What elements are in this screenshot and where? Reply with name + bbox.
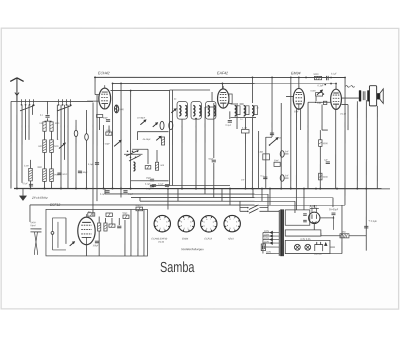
svg-text:80pF: 80pF — [83, 172, 88, 174]
svg-text:25pF: 25pF — [146, 178, 152, 180]
svg-text:ECF12: ECF12 — [50, 203, 60, 207]
svg-text:0,1µF: 0,1µF — [226, 125, 232, 127]
resistor 50pF — [123, 215, 129, 218]
wire second top rail — [113, 82, 336, 84]
wire — [130, 209, 132, 256]
oscillator section verticals — [130, 91, 132, 189]
svg-text:6,3V 0,3A: 6,3V 0,3A — [300, 238, 311, 241]
wire — [320, 233, 322, 236]
capacitor 0.1uF below bus — [123, 191, 133, 196]
primary taps — [263, 231, 279, 254]
potentiometer 0.5M — [258, 152, 269, 160]
svg-text:EM34: EM34 — [291, 71, 300, 75]
IF transformer T1 primary — [171, 101, 187, 119]
svg-text:50pF: 50pF — [122, 213, 128, 215]
wire — [267, 194, 269, 208]
resistor 300 — [106, 213, 112, 216]
wire — [332, 198, 334, 207]
wire — [92, 102, 94, 209]
speaker — [369, 86, 383, 106]
wire drop — [213, 189, 215, 198]
wire — [349, 235, 366, 237]
wire — [67, 105, 69, 189]
svg-text:2n: 2n — [257, 108, 259, 110]
trimmer AM osc — [59, 143, 66, 149]
resistor 150 — [145, 166, 151, 169]
capacitor 0.1 — [263, 177, 267, 179]
resistor 5000 top — [314, 76, 321, 79]
svg-text:0,6µF: 0,6µF — [146, 188, 152, 190]
tube socket EM34 — [178, 215, 194, 231]
svg-text:10-30pF: 10-30pF — [137, 117, 146, 119]
wire — [240, 103, 244, 105]
wire — [170, 89, 211, 91]
wire — [47, 118, 49, 121]
svg-text:0,1µF: 0,1µF — [22, 183, 28, 185]
wire — [56, 105, 58, 140]
svg-text:4-20pF: 4-20pF — [103, 144, 111, 146]
wire — [236, 103, 238, 129]
capacitor 0.5uF — [150, 185, 154, 187]
wire — [315, 96, 317, 101]
capacitor 150pF — [92, 241, 99, 247]
wire — [251, 118, 253, 189]
svg-text:0,5M: 0,5M — [258, 152, 263, 154]
wire — [330, 246, 335, 248]
wire — [330, 253, 342, 255]
trimmer 45-45pF — [156, 136, 161, 140]
wire — [51, 152, 53, 169]
resistor — [109, 224, 115, 227]
wire heater line 1 — [105, 193, 268, 195]
svg-text:50pF: 50pF — [209, 159, 215, 161]
wire — [298, 77, 300, 88]
wire — [21, 105, 23, 183]
svg-text:EL41: EL41 — [341, 113, 347, 116]
svg-text:EM34: EM34 — [182, 237, 189, 240]
hum symbol — [346, 86, 350, 88]
IF transformer T1 secondary — [191, 101, 201, 119]
svg-text:5nF: 5nF — [285, 151, 289, 153]
svg-text:5000: 5000 — [314, 74, 320, 76]
wire — [244, 133, 246, 189]
svg-text:AZ41: AZ41 — [227, 238, 234, 241]
wire — [111, 83, 113, 188]
wire — [321, 104, 323, 130]
wire — [111, 218, 113, 224]
wire — [28, 105, 30, 140]
wire — [86, 110, 88, 134]
coil small — [85, 134, 89, 141]
svg-text:4700: 4700 — [135, 205, 141, 207]
wire — [195, 119, 197, 189]
svg-text:5nF: 5nF — [285, 175, 289, 177]
capacitor 0.1uF left — [88, 163, 99, 166]
wire — [213, 163, 215, 189]
svg-text:0,1µF: 0,1µF — [318, 85, 325, 87]
wire — [47, 101, 49, 114]
trimmer 4-20pF — [114, 140, 121, 146]
wire — [376, 106, 378, 189]
wire — [167, 189, 169, 210]
IF transformer T2 primary — [235, 106, 240, 117]
resistor 4700 on box edge — [136, 207, 143, 211]
capacitor 50nF — [57, 173, 68, 176]
wire — [307, 102, 309, 188]
wire — [342, 104, 349, 106]
junction — [330, 77, 332, 79]
mains switch — [240, 201, 279, 213]
svg-text:50+50µF: 50+50µF — [329, 209, 339, 211]
wire — [118, 218, 120, 225]
svg-text:50pF: 50pF — [317, 103, 323, 105]
svg-text:80pF: 80pF — [103, 118, 109, 120]
resistor 2500 — [29, 168, 33, 181]
coil L2 — [114, 105, 118, 113]
output transformer — [359, 90, 369, 101]
tube EL41 — [331, 86, 342, 109]
fuse holder — [314, 242, 322, 256]
wire — [51, 131, 53, 140]
secondary loop heater — [285, 240, 330, 253]
wire — [30, 160, 32, 169]
svg-text:150pF: 150pF — [92, 245, 99, 247]
tube ECF12 — [78, 214, 95, 245]
wire — [341, 205, 343, 254]
svg-text:ECF12: ECF12 — [204, 238, 212, 241]
wire — [231, 117, 256, 119]
capacitor 0.1uF on bus — [29, 184, 33, 186]
wire — [258, 131, 260, 189]
ground symbol — [19, 189, 26, 201]
resistor 3000 — [43, 169, 47, 182]
wire — [65, 218, 67, 244]
wire — [94, 77, 96, 94]
wire — [204, 107, 206, 189]
svg-text:110V: 110V — [266, 252, 271, 254]
wire — [205, 106, 216, 108]
svg-text:50nF: 50nF — [62, 174, 67, 176]
capacitor 0.5uF out — [364, 219, 377, 228]
capacitor 0.1uF pair — [145, 184, 169, 187]
svg-text:0,1µF: 0,1µF — [128, 194, 134, 196]
capacitor 1uF — [326, 162, 330, 164]
trimmer fm — [70, 242, 75, 246]
svg-text:0,1M: 0,1M — [242, 128, 247, 130]
wire B+ top bus — [95, 76, 345, 78]
svg-text:0,5µF: 0,5µF — [371, 220, 378, 223]
resistor 250 — [340, 232, 349, 238]
trimmer 10-30pF — [140, 120, 146, 125]
resistor 100 — [43, 122, 46, 131]
resistor 5000 — [319, 140, 322, 147]
capacitor cathode 1 — [303, 214, 307, 216]
wire main ground bus — [14, 188, 390, 190]
capacitor cathode 2 — [303, 220, 307, 222]
wire — [102, 125, 104, 189]
svg-text:ZF=447kHz: ZF=447kHz — [31, 196, 48, 200]
wire — [335, 109, 337, 188]
wire — [120, 83, 122, 188]
junction — [290, 77, 292, 79]
wire left drop — [10, 101, 12, 188]
potentiometer 1M volume — [269, 138, 282, 146]
resistor 3000 — [50, 122, 53, 131]
wire — [271, 77, 273, 137]
wire — [98, 216, 100, 223]
wire — [64, 105, 66, 160]
coil small — [74, 130, 78, 136]
wire — [344, 77, 346, 205]
wire — [266, 136, 272, 138]
capacitor 25pF — [150, 179, 154, 181]
svg-text:0,1µF: 0,1µF — [158, 184, 164, 186]
svg-text:125V: 125V — [264, 238, 270, 240]
wire — [29, 205, 31, 222]
svg-text:150V: 150V — [264, 234, 270, 236]
wire — [229, 111, 231, 119]
IF transformer T2 secondary — [244, 106, 249, 117]
resistor 0.1M — [241, 128, 249, 133]
wire drop — [221, 189, 223, 202]
svg-text:50pF: 50pF — [294, 111, 299, 113]
wire — [365, 100, 367, 250]
UKW dipole — [30, 222, 41, 255]
svg-text:0,1µF: 0,1µF — [100, 194, 106, 196]
capacitor 50+50uF — [329, 209, 339, 230]
wire heater line 2 — [131, 196, 333, 198]
resistor 2400 — [50, 169, 54, 182]
wire — [96, 95, 98, 201]
wire — [104, 189, 106, 194]
wire supply line 4 — [30, 204, 345, 206]
potentiometer 0.5M em — [311, 90, 325, 96]
wire — [290, 77, 292, 188]
wire osc bottom — [131, 180, 169, 182]
svg-text:0,5M: 0,5M — [311, 90, 316, 92]
svg-text:220V: 220V — [264, 231, 270, 233]
band switch S2 — [124, 149, 148, 161]
wire — [322, 129, 328, 131]
wire — [85, 245, 87, 256]
svg-text:ECH42: ECH42 — [98, 71, 110, 75]
wire — [120, 189, 122, 198]
wire — [294, 201, 296, 213]
wire — [108, 125, 110, 132]
wire drop — [252, 189, 254, 198]
svg-text:EAF42: EAF42 — [217, 71, 228, 75]
junction dots top bus — [94, 76, 346, 84]
svg-text:50nF: 50nF — [274, 160, 280, 162]
wire — [143, 209, 145, 256]
wire — [280, 103, 282, 189]
resistor 5000 lower — [319, 173, 322, 180]
capacitor 5nF — [280, 151, 289, 157]
band switch S1b — [57, 99, 72, 111]
detector coil — [252, 106, 257, 117]
svg-text:1n: 1n — [240, 119, 242, 121]
wire — [92, 209, 94, 216]
svg-text:E27/10: E27/10 — [314, 254, 322, 256]
wire — [221, 84, 223, 89]
capacitor 80pF — [78, 171, 88, 174]
mains connector — [261, 244, 265, 251]
wire — [320, 217, 334, 219]
wire — [335, 84, 337, 90]
svg-text:1µF: 1µF — [324, 159, 328, 161]
wire drop — [204, 189, 206, 194]
resistor 50nF box — [274, 160, 280, 166]
wire — [99, 117, 101, 130]
resistor 1M — [106, 130, 112, 135]
svg-text:110V: 110V — [264, 241, 269, 243]
power transformer core — [279, 210, 283, 257]
secondary loop 2 — [285, 230, 321, 236]
wire — [177, 189, 179, 202]
junction — [305, 77, 307, 79]
capacitor 0.1uF input — [45, 116, 49, 118]
svg-text:UKW-: UKW- — [30, 222, 36, 224]
resistor 500 — [43, 140, 47, 153]
wire screen pair — [168, 90, 170, 185]
svg-text:2,5M: 2,5M — [24, 165, 29, 167]
svg-text:1000: 1000 — [119, 109, 125, 111]
capacitor top — [327, 76, 329, 80]
band switch S1a — [20, 99, 35, 111]
resistor 500 osc — [161, 137, 164, 145]
wire — [60, 105, 62, 189]
wire — [25, 105, 27, 140]
tube socket ECF12 — [201, 216, 217, 232]
resistor under tube — [97, 115, 103, 118]
coil — [169, 121, 173, 129]
wire — [251, 77, 253, 103]
svg-text:Samba: Samba — [160, 260, 195, 276]
wire — [181, 119, 183, 188]
svg-text:45-45pF: 45-45pF — [143, 139, 152, 141]
wire — [245, 118, 247, 129]
capacitor 0.1uF below bus — [100, 191, 110, 196]
phase arrow — [324, 243, 327, 246]
wire — [124, 220, 126, 256]
wire grid em34 — [286, 95, 293, 97]
wire — [98, 231, 100, 256]
resistor anode load — [229, 94, 232, 104]
wire — [136, 132, 138, 140]
wire — [213, 103, 215, 158]
svg-text:Dipol: Dipol — [30, 225, 35, 227]
UKW unit box — [46, 209, 148, 256]
wire — [75, 120, 77, 130]
dial lamps — [294, 238, 311, 250]
wire drop — [229, 189, 231, 205]
wire — [75, 137, 77, 189]
svg-text:47nF: 47nF — [277, 138, 283, 140]
wire antenna feed — [11, 100, 93, 102]
resistor — [98, 223, 101, 231]
wire — [44, 152, 46, 169]
wire — [308, 101, 331, 103]
wire — [313, 224, 315, 230]
wire AF line segment — [150, 184, 230, 186]
svg-text:AZ41: AZ41 — [308, 204, 317, 208]
wire — [139, 197, 141, 201]
wire anode to IF — [111, 90, 170, 92]
svg-text:0,1µF: 0,1µF — [145, 184, 151, 186]
wire — [356, 101, 358, 188]
trimmer 30pF — [153, 123, 158, 127]
coil — [160, 121, 164, 129]
wire drop — [269, 189, 271, 205]
wire — [85, 140, 87, 188]
secondary loop rectifier — [285, 210, 310, 225]
IF coil unit — [206, 102, 216, 120]
svg-text:0,1µF: 0,1µF — [331, 73, 337, 75]
capacitor 1nF top — [270, 133, 274, 135]
wire — [211, 92, 213, 102]
wire — [95, 94, 99, 96]
wire — [44, 131, 46, 140]
wire — [104, 218, 106, 223]
wire — [295, 109, 297, 210]
wire — [50, 181, 52, 188]
tube socket ECH42/EAF42/EL41 — [154, 215, 170, 231]
resistor 500 — [155, 162, 158, 170]
tube EM34 — [293, 85, 304, 109]
capacitor 80pF — [106, 120, 110, 122]
svg-text:Sockelschaltungen: Sockelschaltungen — [181, 247, 204, 251]
tube socket AZ41 — [224, 215, 240, 231]
wire — [43, 181, 45, 188]
resistor 50 — [88, 213, 95, 216]
wire — [342, 97, 359, 99]
tube EAF42 — [218, 86, 229, 108]
wire — [265, 137, 267, 189]
wire osc top — [137, 131, 168, 133]
wire — [156, 150, 158, 162]
antenna — [10, 78, 23, 102]
capacitor 5nF lower — [280, 175, 289, 181]
wire — [29, 181, 31, 189]
junction dots ground bus — [16, 188, 367, 190]
wire — [231, 103, 237, 105]
svg-text:5000: 5000 — [323, 143, 329, 145]
resistor 2400 — [50, 140, 54, 153]
resistor — [104, 223, 107, 231]
wire drop — [261, 189, 263, 202]
wire — [319, 130, 321, 140]
wire — [45, 120, 52, 122]
svg-text:0,1µF: 0,1µF — [88, 164, 94, 166]
capacitor 0.1uF — [228, 121, 232, 123]
rectifier tube AZ41 — [309, 205, 320, 224]
svg-text:5000: 5000 — [323, 177, 329, 179]
capacitor 50pF mid — [212, 160, 216, 162]
wire — [300, 109, 302, 130]
capacitor 50pF — [315, 101, 327, 104]
wire supply line 3 — [140, 200, 295, 202]
wire grid lead — [87, 100, 99, 102]
wire — [137, 211, 139, 256]
capacitor — [117, 226, 121, 228]
svg-text:EL41: EL41 — [158, 241, 164, 244]
wire — [16, 101, 18, 188]
coil L osc — [133, 162, 135, 171]
wire — [32, 105, 34, 115]
FM input circle — [51, 218, 66, 250]
tube ECH42 — [99, 85, 111, 109]
wire — [147, 149, 149, 164]
